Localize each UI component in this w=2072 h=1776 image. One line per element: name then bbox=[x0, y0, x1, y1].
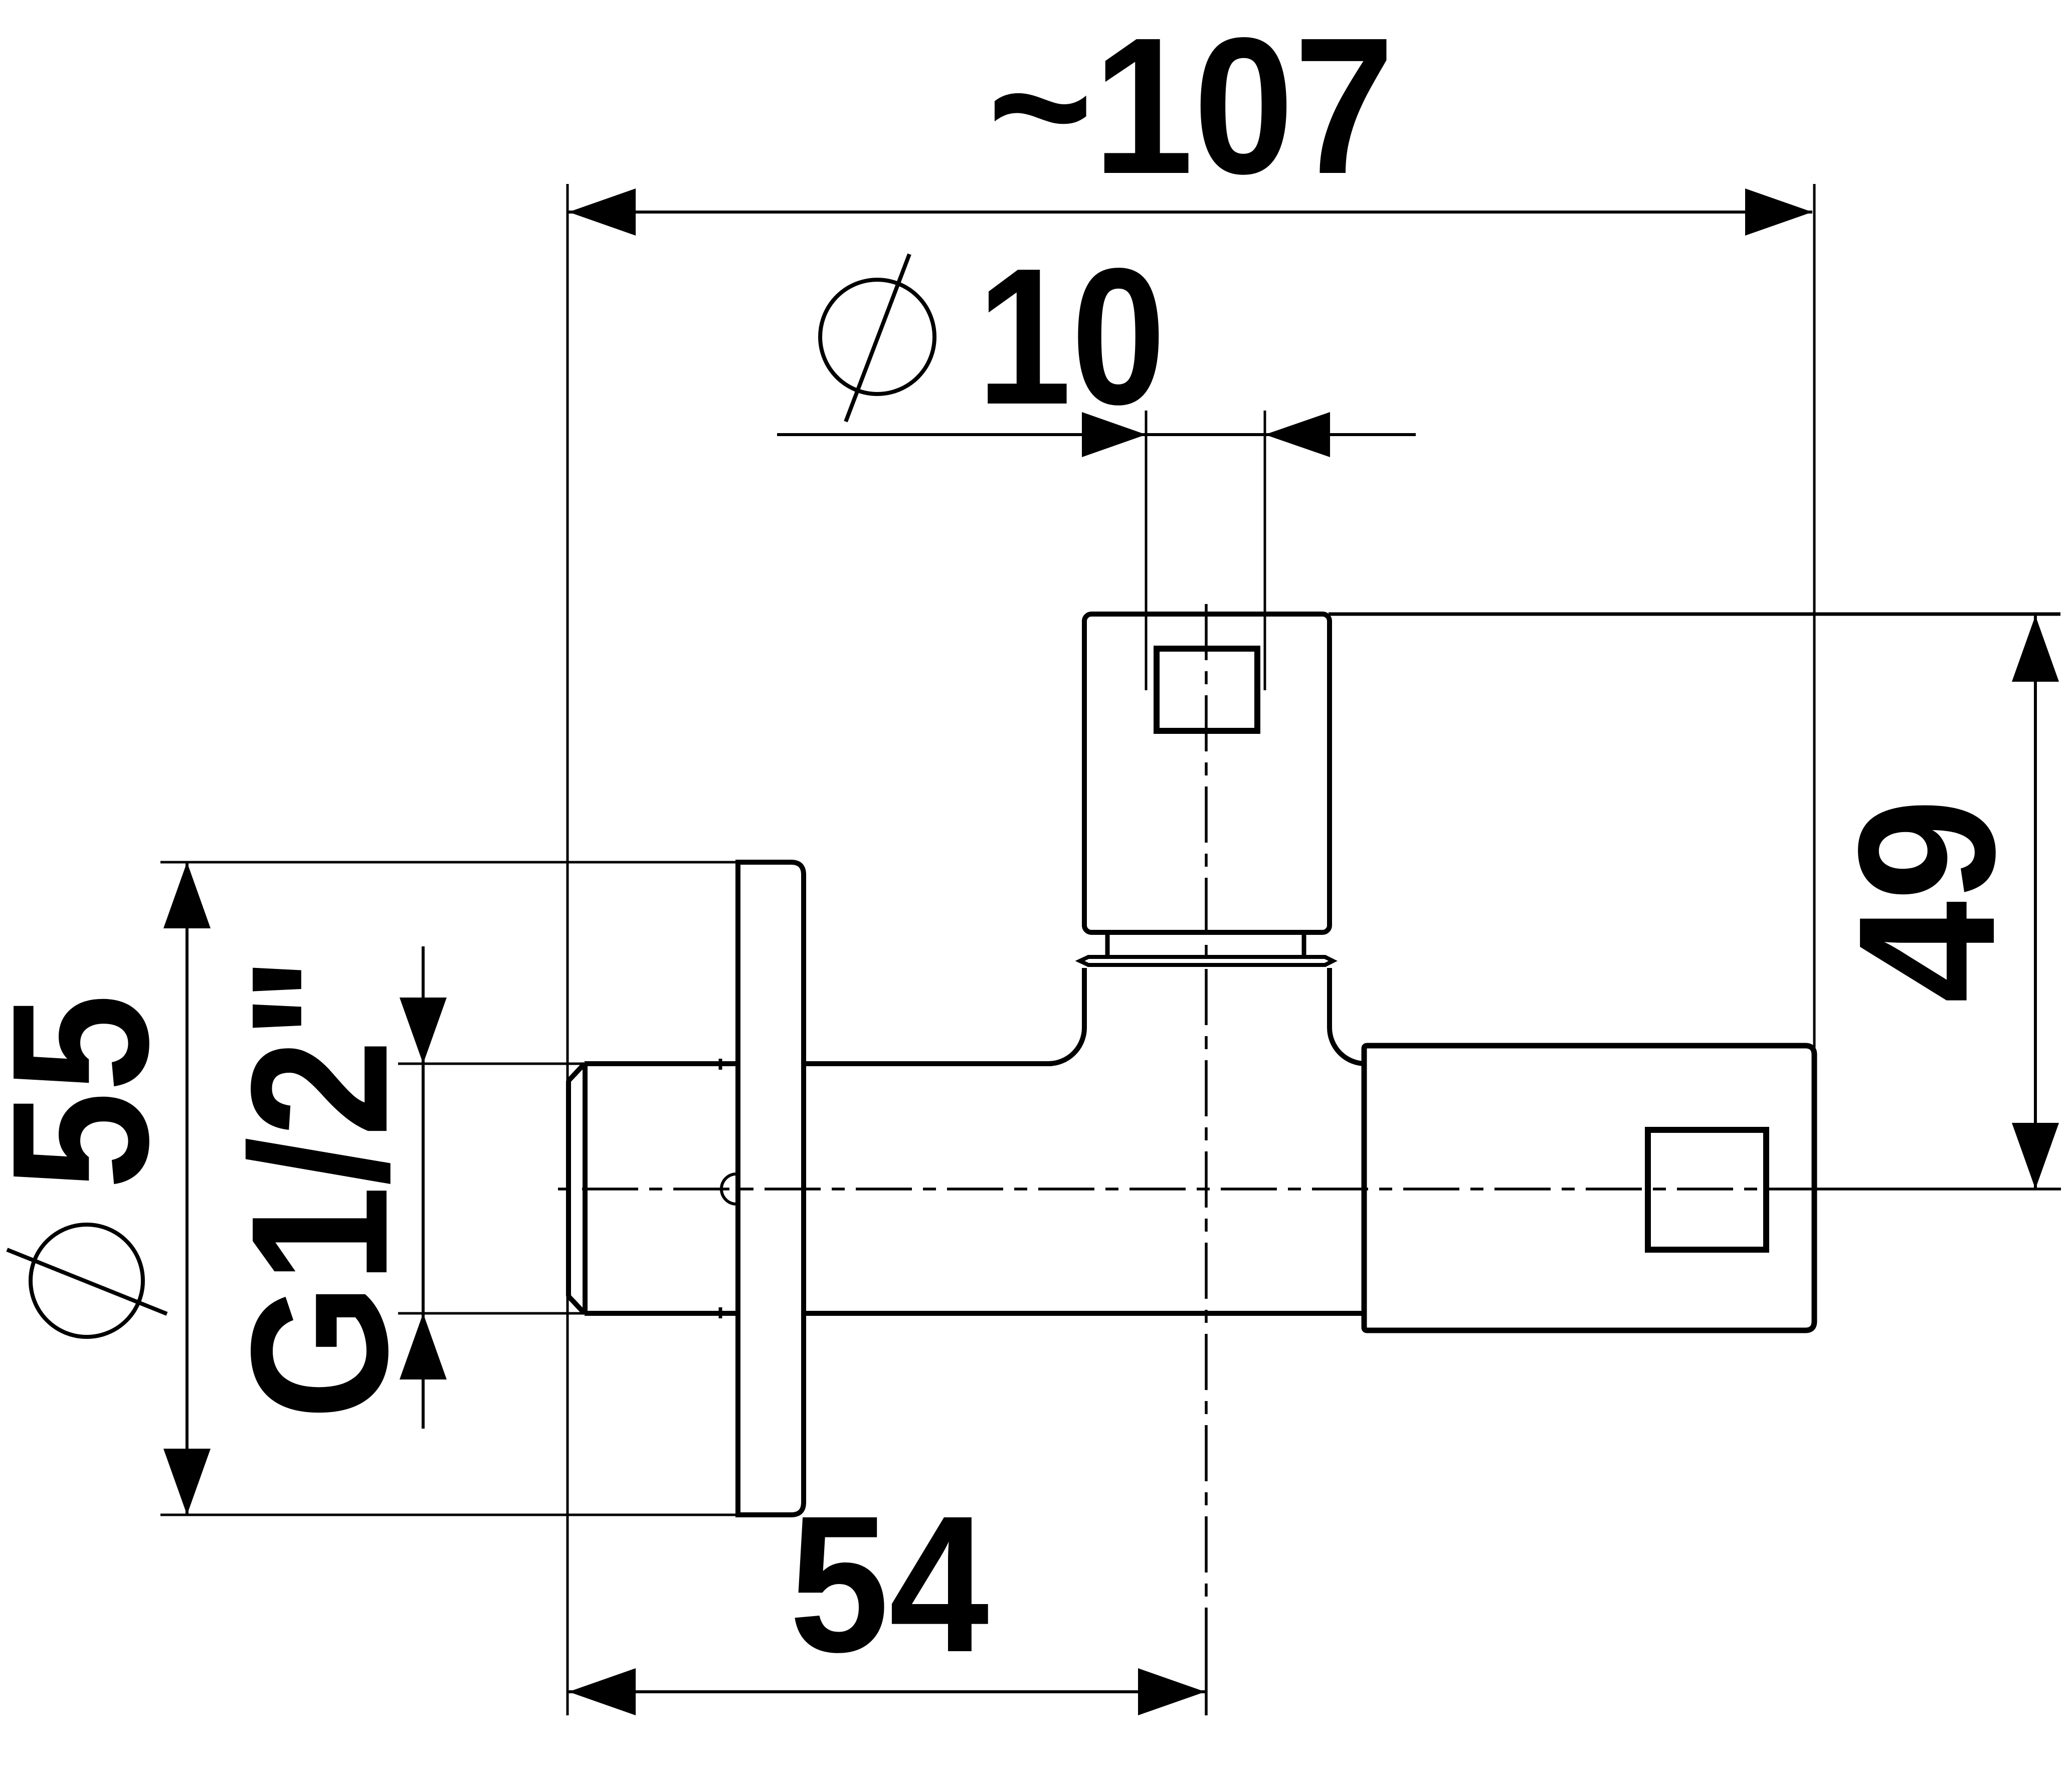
dimension 49 top arrow bbox=[2012, 616, 2059, 682]
thread G1/2 bottom extension line bbox=[398, 1312, 587, 1315]
thread relief ticks bbox=[719, 1059, 722, 1318]
thread G1/2 dimension line bbox=[422, 946, 425, 1429]
dimension 10 left arrow bbox=[1082, 412, 1146, 457]
detent semicircle on flange bbox=[721, 1174, 736, 1204]
bonnet square drive bbox=[1157, 649, 1257, 731]
svg-text:54: 54 bbox=[789, 1476, 990, 1693]
horizontal centerline bbox=[558, 1188, 2061, 1191]
dimension 55 bottom arrow bbox=[163, 1449, 211, 1515]
dimension 55 bottom extension line bbox=[160, 1514, 738, 1516]
dimension 10 right arrow bbox=[1265, 412, 1330, 457]
dimension 55 line bbox=[185, 862, 189, 1515]
dimension ~107 left arrow bbox=[569, 188, 636, 236]
body pipe top edge bbox=[804, 1061, 1052, 1066]
dimension 49 line bbox=[2034, 616, 2037, 1189]
svg-text:~107: ~107 bbox=[988, 0, 1395, 215]
extension line right (107, handle right face) bbox=[1813, 184, 1816, 1048]
thread G1/2 top extension line bbox=[398, 1063, 587, 1065]
dimension 10 extension line left bbox=[1145, 411, 1148, 690]
wall flange bbox=[738, 862, 804, 1515]
dimension 49 top extension line bbox=[1329, 613, 2060, 616]
outlet handle block bbox=[1364, 1046, 1814, 1330]
valve body under bonnet bbox=[1048, 968, 1366, 1064]
body pipe bottom edge bbox=[804, 1311, 1364, 1316]
bonnet cylinder bbox=[1084, 614, 1330, 932]
dimension 49 bottom arrow bbox=[2012, 1123, 2059, 1189]
diameter symbol of 10 bbox=[820, 254, 934, 422]
bonnet neck left bbox=[1105, 932, 1110, 957]
dimension 54 left arrow bbox=[569, 1668, 636, 1715]
dimension 10 extension line right bbox=[1264, 411, 1266, 690]
dimension 55 top arrow bbox=[163, 862, 211, 928]
diameter symbol of 55 bbox=[7, 1225, 167, 1337]
bonnet neck right bbox=[1302, 932, 1306, 957]
gasket ring bbox=[1080, 957, 1333, 965]
dimension ~107 line bbox=[569, 211, 1812, 214]
dimension 54 line bbox=[569, 1690, 1205, 1693]
valve inlet threaded stub bbox=[569, 1064, 738, 1313]
dimension 10 line bbox=[777, 433, 1416, 436]
thread G1/2 bottom arrow bbox=[400, 1313, 447, 1379]
svg-text:G1/2": G1/2" bbox=[211, 956, 428, 1420]
thread G1/2 top arrow bbox=[400, 998, 447, 1064]
extension line left (107/54 datum) bbox=[567, 184, 569, 1715]
svg-text:10: 10 bbox=[977, 228, 1166, 445]
dimension 49 bottom extension line bbox=[1817, 1188, 2060, 1191]
handle square drive bbox=[1648, 1130, 1766, 1250]
dimension 55 top extension line bbox=[160, 861, 738, 864]
vertical centerline bbox=[1205, 604, 1208, 1715]
dimension 54 right arrow bbox=[1138, 1668, 1205, 1715]
dimension ~107 right arrow bbox=[1745, 188, 1812, 236]
svg-text:55: 55 bbox=[0, 994, 189, 1190]
svg-text:49: 49 bbox=[1818, 799, 2036, 1003]
